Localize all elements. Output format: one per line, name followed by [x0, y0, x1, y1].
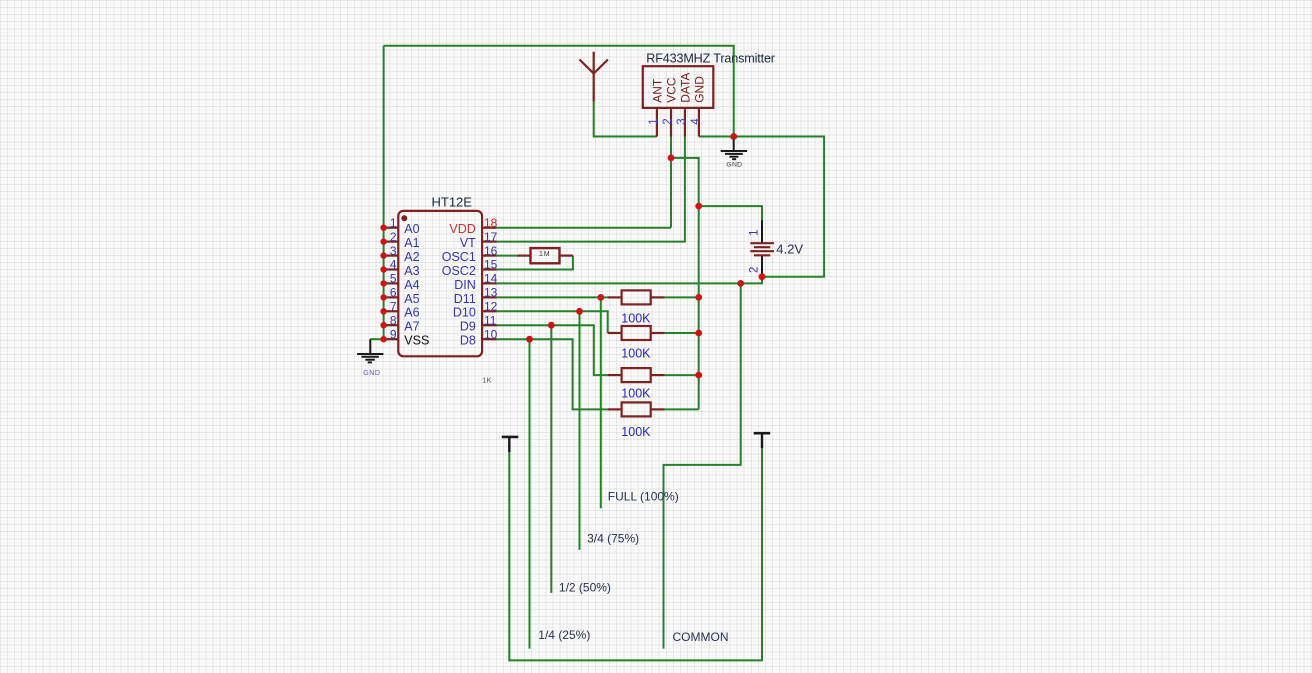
- svg-text:9: 9: [390, 327, 397, 341]
- transmitter pin numbers 1-4 (rotated): [648, 118, 702, 125]
- svg-text:16: 16: [484, 244, 498, 258]
- svg-text:D8: D8: [460, 334, 476, 348]
- net label FULL (100%): [538, 490, 728, 645]
- battery BT1 leads: [761, 220, 763, 242]
- wire 3/4 tap: [579, 311, 581, 549]
- svg-text:18: 18: [484, 216, 498, 230]
- wire OSC2 return from R5: [497, 256, 573, 270]
- svg-text:2: 2: [749, 267, 761, 273]
- svg-text:HT12E: HT12E: [432, 195, 473, 210]
- svg-text:1: 1: [390, 216, 397, 230]
- wire left address bus: [383, 46, 385, 340]
- svg-text:A4: A4: [404, 278, 419, 292]
- junction dot ground net at transmitter: [730, 133, 737, 140]
- wire pin10 D8 to R4: [497, 339, 608, 409]
- wire pin16 OSC1: [497, 255, 518, 257]
- antenna ANT1: [593, 52, 595, 102]
- HT12E left pin numbers 1-9: [390, 216, 397, 342]
- HT12E right pin numbers 18-10: [484, 216, 498, 342]
- wire FULL tap: [600, 297, 602, 508]
- svg-text:15: 15: [484, 258, 498, 272]
- pin 1 marker dot inside HT12E: [401, 215, 407, 221]
- svg-text:1: 1: [648, 118, 660, 124]
- wire antenna feed: [594, 102, 657, 137]
- svg-text:10: 10: [484, 327, 498, 341]
- RF433MHZ transmitter module body: [643, 66, 714, 108]
- wire 1/4 tap: [529, 339, 531, 648]
- resistor R2 100K: [622, 326, 651, 340]
- svg-text:17: 17: [484, 230, 498, 244]
- svg-text:A6: A6: [404, 306, 419, 320]
- svg-text:DATA: DATA: [679, 73, 693, 103]
- svg-text:3: 3: [676, 118, 688, 124]
- wire R3 right to VDD rail: [665, 374, 699, 376]
- wire ground top bus: [384, 46, 734, 137]
- wire R2 right to VDD rail: [665, 332, 699, 334]
- HT12E right pin names: [442, 222, 476, 348]
- wire VCC pin2 down: [670, 137, 672, 228]
- terminal T1 left: [502, 436, 519, 439]
- wire VSS to ground symbol: [370, 338, 383, 340]
- svg-text:OSC1: OSC1: [442, 250, 476, 264]
- wire battery positive: [699, 206, 762, 221]
- svg-text:3: 3: [390, 244, 397, 258]
- resistor R1 100K: [622, 290, 651, 304]
- svg-text:VT: VT: [460, 236, 476, 250]
- junction dots resistor ladder: [597, 294, 604, 301]
- transmitter pin stubs 1-4: [656, 108, 658, 137]
- svg-text:11: 11: [484, 313, 497, 327]
- svg-text:14: 14: [484, 272, 498, 286]
- svg-text:12: 12: [484, 300, 498, 314]
- svg-text:A3: A3: [404, 264, 419, 278]
- svg-text:8: 8: [390, 313, 397, 327]
- svg-text:1/4 (25%): 1/4 (25%): [538, 628, 590, 642]
- wire pin11 D9 to R3: [497, 325, 608, 375]
- wire pin13 D11 to R1: [497, 296, 608, 298]
- wire R4 right to VDD rail: [665, 408, 699, 410]
- junction dot battery negative: [759, 273, 766, 280]
- op-amp U1: HT12E IC body: [398, 211, 482, 356]
- svg-text:100K: 100K: [621, 312, 651, 326]
- svg-text:6: 6: [390, 286, 397, 300]
- resistor values 100K: [621, 312, 651, 440]
- svg-text:D9: D9: [460, 320, 476, 334]
- svg-text:DIN: DIN: [454, 278, 476, 292]
- svg-text:1K: 1K: [482, 375, 491, 384]
- svg-text:4: 4: [690, 118, 702, 125]
- battery pin numbers 1 2 (rotated): [749, 229, 761, 273]
- svg-text:D10: D10: [453, 306, 476, 320]
- junction dot battery positive: [695, 203, 702, 210]
- svg-text:2: 2: [390, 230, 397, 244]
- svg-text:OSC2: OSC2: [442, 264, 476, 278]
- ground symbol left (VSS): [369, 339, 371, 353]
- svg-text:A7: A7: [404, 320, 419, 334]
- svg-text:100K: 100K: [621, 387, 651, 401]
- junction dot VCC branch: [668, 155, 675, 162]
- battery BT1 plates: [750, 242, 774, 244]
- svg-text:A0: A0: [404, 222, 419, 236]
- svg-text:GND: GND: [726, 161, 742, 168]
- wire VCC branch to VDD rail: [671, 158, 699, 410]
- junction dot DIN/COMMON: [737, 280, 744, 287]
- svg-text:100K: 100K: [621, 347, 651, 361]
- svg-text:GND: GND: [363, 370, 380, 377]
- resistor R5 1M: [531, 248, 560, 263]
- resistor R4 100K: [622, 402, 651, 416]
- svg-text:FULL (100%): FULL (100%): [608, 490, 679, 504]
- svg-text:RF433MHZ Transmitter: RF433MHZ Transmitter: [646, 51, 775, 65]
- resistor R3 100K: [622, 368, 651, 382]
- svg-text:100K: 100K: [621, 425, 651, 439]
- transmitter pin names ANT VCC DATA GND (rotated): [651, 73, 707, 103]
- wire 1/2 tap: [550, 325, 552, 593]
- wire pin14 DIN to GND: [497, 277, 762, 284]
- svg-text:VCC: VCC: [665, 77, 679, 103]
- svg-text:3/4 (75%): 3/4 (75%): [587, 532, 639, 546]
- terminal T2 right: [754, 432, 771, 435]
- wire pin12 D10 to R2: [497, 311, 608, 333]
- svg-text:A5: A5: [404, 292, 419, 306]
- svg-text:4.2V: 4.2V: [776, 242, 803, 257]
- svg-text:1: 1: [749, 229, 761, 235]
- svg-text:7: 7: [390, 300, 397, 314]
- HT12E left pin stubs 1-9: [384, 227, 399, 229]
- svg-text:13: 13: [484, 286, 498, 300]
- svg-text:1/2 (50%): 1/2 (50%): [559, 581, 611, 595]
- wire bottom U terminal loop: [509, 448, 762, 660]
- wire R1 right to VDD rail: [665, 296, 699, 298]
- svg-text:VDD: VDD: [449, 222, 475, 236]
- svg-text:A1: A1: [404, 236, 419, 250]
- ground symbol transmitter: [733, 137, 735, 151]
- junction dots HT12E left pins: [380, 225, 386, 231]
- svg-text:COMMON: COMMON: [673, 630, 729, 644]
- svg-text:2: 2: [662, 118, 674, 124]
- HT12E right pin stubs 10-18: [482, 227, 497, 229]
- svg-text:VSS: VSS: [404, 334, 429, 348]
- wire pin17 VT to DATA: [497, 137, 685, 242]
- svg-text:A2: A2: [404, 250, 419, 264]
- svg-text:ANT: ANT: [651, 78, 665, 103]
- svg-text:GND: GND: [693, 76, 707, 103]
- svg-text:1M: 1M: [539, 251, 551, 258]
- wire GND net right: [699, 137, 824, 277]
- svg-text:D11: D11: [454, 292, 476, 306]
- wire pin18 VDD: [497, 227, 671, 229]
- svg-text:5: 5: [390, 272, 397, 286]
- wire COMMON from DIN junction: [664, 283, 741, 648]
- svg-text:4: 4: [390, 258, 397, 272]
